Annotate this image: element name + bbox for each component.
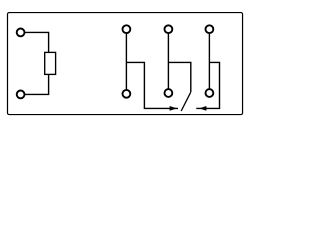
contact pin 5 top (NO) [206,25,214,33]
wire pin3 vertical [125,33,127,90]
coil pin 1 (top-left) [17,29,25,37]
coil K1 [45,52,56,74]
armature (movable contact) [181,92,191,111]
wire pin4 vertical [167,33,169,89]
contact pin 4 bottom (COM) [165,89,173,97]
NO arrow (points left) [199,106,206,111]
contact pin 3 top (NC) [123,25,131,33]
wire coil to pin 2 [24,74,48,94]
contact pin 4 top (COM) [165,25,173,33]
coil pin 2 (bottom-left) [17,91,25,99]
COM branch wire [168,62,190,92]
wire pin5 vertical [208,33,210,89]
NO branch wire [196,62,219,108]
relay package outline [8,13,243,115]
contact pin 3 bottom (NC) [123,90,131,98]
NC arrow (points right) [170,106,177,111]
contact pin 5 bottom (NO) [206,89,214,97]
wire pin1 to coil [24,32,48,52]
NC branch wire [126,62,178,108]
